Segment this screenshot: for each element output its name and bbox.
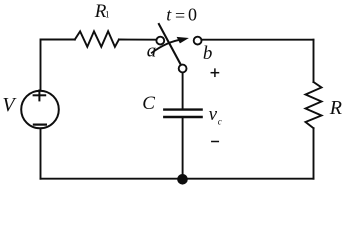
wire top-left horizontal	[41, 40, 75, 91]
switch motion arrow	[152, 39, 183, 53]
svg-text:b: b	[203, 43, 213, 64]
capacitor C top plate	[164, 108, 201, 110]
svg-text:C: C	[142, 93, 155, 114]
svg-text:t=0: t=0	[166, 5, 197, 26]
node junction dot	[177, 174, 188, 185]
wire capacitor to bottom node	[182, 118, 184, 179]
wire switch terminal b to right	[202, 39, 314, 41]
capacitor C bottom plate	[164, 116, 201, 118]
switch terminal a	[156, 37, 164, 45]
capacitor minus polarity mark	[212, 141, 219, 143]
switch terminal b	[194, 37, 202, 45]
svg-text:a: a	[147, 40, 157, 61]
voltage source plus sign	[34, 94, 46, 96]
wire switch pole to capacitor	[182, 73, 184, 108]
svg-text:1: 1	[105, 9, 110, 19]
svg-text:R: R	[329, 97, 342, 119]
wire right vertical top	[313, 40, 315, 82]
resistor R	[306, 82, 322, 128]
switch common pole	[179, 65, 187, 73]
capacitor plus polarity mark	[211, 72, 218, 74]
voltage source minus sign	[34, 123, 46, 125]
wire left vertical bottom	[40, 129, 42, 179]
svg-text:v: v	[209, 104, 218, 125]
wire R1 to switch terminal a	[119, 39, 156, 41]
wire bottom horizontal	[41, 178, 314, 180]
wire right vertical bottom	[313, 128, 315, 179]
svg-text:c: c	[218, 117, 222, 127]
voltage source V circle	[21, 91, 59, 129]
switch blade	[159, 24, 181, 64]
resistor R1	[75, 31, 119, 47]
